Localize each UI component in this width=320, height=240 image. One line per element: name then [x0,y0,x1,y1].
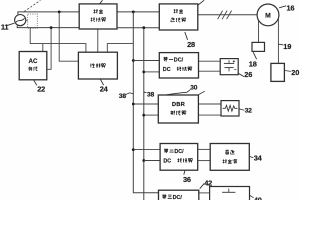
label 40 [250,195,254,197]
three-phase slash marks [218,11,223,20]
svg-text:40: 40 [254,196,262,200]
label 30 with curved lead [159,89,191,96]
label 32 [239,109,244,110]
node rail A top [132,11,135,14]
generator G 11 circle with AC squiggle [15,15,26,26]
svg-text:32: 32 [245,108,253,115]
svg-text:M: M [265,12,271,19]
svg-text:DC: DC [163,158,171,164]
label 20 [285,70,291,73]
wire third DC/DC to energy storage 40 [199,192,210,194]
label 28 [185,32,188,40]
wire rail B to first DC/DC converter [144,71,160,73]
svg-text:16: 16 [287,4,295,13]
counterweight box 20 [271,63,285,81]
wire tap to AC load and controller (control line) [30,28,86,53]
svg-text:38: 38 [119,93,127,100]
svg-text:18: 18 [249,59,257,68]
wire DBR to resistor 32 (top) [198,103,221,105]
hoist/brake box 18 [252,42,265,51]
power converter box (gong lv zhuan huan qi) [79,4,117,29]
svg-text:36: 36 [183,175,191,184]
svg-text:28: 28 [187,40,195,49]
second DC/DC converter box 36 [160,144,198,171]
svg-text:AC: AC [29,58,38,65]
dynamic brake resistor box 32 [221,101,239,116]
wire first DC/DC to battery 26 (top) [199,60,221,62]
wire second DC/DC to alternative source (bottom) [198,160,211,162]
svg-text:38: 38 [147,92,155,99]
power inverter box 28 (gong lv ni bian qi) [159,4,198,30]
label 22 [34,80,37,85]
first DC/DC converter box 30 [159,53,198,78]
label 18 [253,52,256,59]
node rail A to second DC/DC [132,148,135,151]
battery symbol [228,60,230,63]
node rail B to first DC/DC [142,71,145,74]
node rail B to DBR [142,114,145,117]
lead line top of converter [100,0,103,4]
svg-text:24: 24 [100,85,109,94]
label 42 [200,184,204,189]
wire generator stator top line to power converter [18,12,79,15]
wire inverter to motor (3-phase) [198,14,257,16]
svg-text:26: 26 [244,70,252,79]
svg-text:34: 34 [254,153,263,162]
node rail B to second DC/DC [142,159,145,162]
svg-text:20: 20 [291,68,299,77]
svg-text:30: 30 [190,84,197,91]
svg-text:19: 19 [283,42,291,51]
wire DC link top rail converter to inverter [117,11,159,13]
label 36 [184,171,185,175]
wire control line branch down into AC load top [42,44,44,52]
svg-text:DBR: DBR [172,102,186,108]
DC bus rail A vertical (38) [133,12,158,193]
label 24 [100,79,103,85]
node rail A to first DC/DC [132,59,135,62]
controller box 24 (kong zhi qi) [78,52,117,79]
motor M 16 circle [257,4,279,26]
wire motor to brake box 18 [258,20,260,42]
lead line top right of DBR [199,91,205,94]
wire DBR to resistor 32 (bottom) [198,114,221,116]
wire first DC/DC to battery 26 (bottom) [199,70,221,72]
svg-text:11: 11 [1,22,9,31]
svg-text:22: 22 [37,85,45,94]
wire generator bottom line to power converter [17,26,79,28]
third DC/DC converter box (cut off) [159,190,199,201]
wire from bottom line down to AC load right side [47,28,51,70]
svg-text:DC: DC [163,67,171,73]
resistor zigzag [223,105,238,111]
wire from top line down to controller left side [59,12,78,61]
gearbox dotted box [28,14,38,28]
wire rail B to second DC/DC converter [144,160,160,162]
DC bus rail B vertical (38) [143,28,145,200]
label 11 [7,23,14,25]
wire rail A to DBR chopper [133,103,158,105]
alternative power source box 34 (bei xuan gong lv yuan) [210,144,249,171]
wire rail B to DBR chopper [144,114,159,116]
label 19 rope [279,43,283,46]
node rail B top [142,26,145,29]
labels 38 DC bus rails [126,93,133,95]
wire DC link bottom rail converter to inverter [117,27,159,29]
label 16 [279,6,286,8]
wire rail A to second DC/DC converter [133,149,160,151]
wire second DC/DC to alternative source (top) [198,148,211,150]
node on bottom generator line [50,26,53,29]
shaft stub [26,19,28,21]
label 34 [250,156,254,158]
node rail A to DBR [132,103,135,106]
energy storage box 40 (cut off) [210,187,250,202]
svg-text:DC/: DC/ [174,149,184,155]
wire motor sheave rope 19 to load 20 [277,18,279,63]
svg-text:DC/: DC/ [173,195,183,200]
wire power converter bottom to controller top [97,29,99,52]
svg-text:DC/: DC/ [174,58,184,64]
wire controller top right to DC bus rail A [107,44,133,53]
wire rail A to first DC/DC converter [133,60,159,62]
AC load box 22 [19,52,47,80]
node on top generator line [58,11,61,14]
label 26 [238,73,244,76]
dashed lead to rotor (cut off) [24,0,40,11]
capacitor/battery top plate symbol [228,189,230,193]
lead line top of inverter [198,0,205,5]
DBR chopper box (zhan bo qi) [158,95,198,123]
battery box 26 [220,59,238,75]
